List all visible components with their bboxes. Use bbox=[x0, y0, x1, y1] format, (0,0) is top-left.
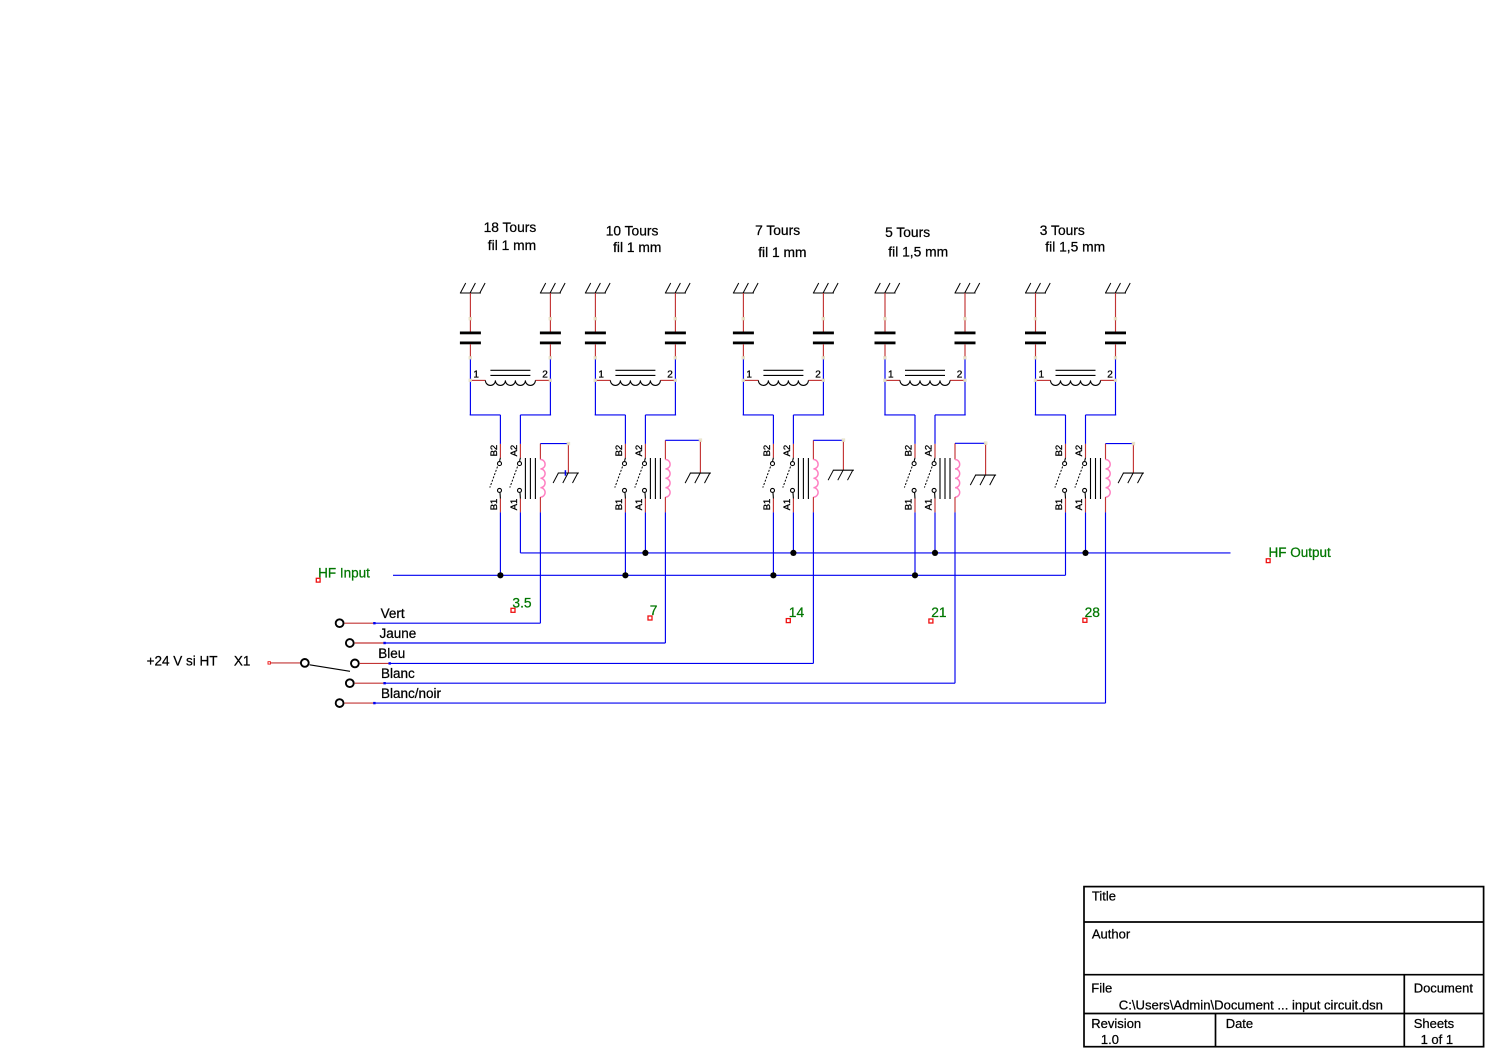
svg-text:B2: B2 bbox=[762, 445, 773, 457]
svg-text:B2: B2 bbox=[614, 445, 625, 457]
svg-text:18 Tours: 18 Tours bbox=[484, 220, 537, 235]
svg-text:2: 2 bbox=[957, 370, 963, 381]
svg-text:B2: B2 bbox=[1054, 445, 1065, 457]
svg-text:7 Tours: 7 Tours bbox=[755, 223, 800, 238]
svg-text:A1: A1 bbox=[782, 499, 793, 511]
svg-text:1: 1 bbox=[598, 370, 604, 381]
svg-text:A1: A1 bbox=[1074, 499, 1085, 511]
svg-text:1: 1 bbox=[746, 370, 752, 381]
svg-text:5 Tours: 5 Tours bbox=[885, 225, 930, 240]
svg-text:1: 1 bbox=[473, 370, 479, 381]
svg-text:X1: X1 bbox=[234, 654, 251, 669]
svg-text:fil 1 mm: fil 1 mm bbox=[758, 245, 806, 260]
svg-text:A1: A1 bbox=[634, 499, 645, 511]
svg-text:14: 14 bbox=[789, 605, 805, 620]
svg-text:Date: Date bbox=[1226, 1016, 1253, 1031]
svg-text:Bleu: Bleu bbox=[378, 646, 405, 661]
svg-text:B1: B1 bbox=[489, 499, 500, 511]
svg-text:HF Input: HF Input bbox=[318, 566, 370, 581]
svg-text:Title: Title bbox=[1092, 889, 1116, 904]
svg-text:Sheets: Sheets bbox=[1414, 1016, 1455, 1031]
svg-text:2: 2 bbox=[542, 370, 548, 381]
svg-text:A2: A2 bbox=[924, 445, 935, 457]
svg-text:B2: B2 bbox=[904, 445, 915, 457]
svg-text:Blanc/noir: Blanc/noir bbox=[381, 686, 442, 701]
svg-text:fil 1 mm: fil 1 mm bbox=[613, 240, 661, 255]
svg-text:fil 1,5 mm: fil 1,5 mm bbox=[1045, 240, 1105, 255]
svg-text:21: 21 bbox=[931, 605, 946, 620]
svg-text:Vert: Vert bbox=[381, 606, 405, 621]
svg-text:1: 1 bbox=[888, 370, 894, 381]
svg-text:A1: A1 bbox=[509, 499, 520, 511]
svg-text:+24 V si HT: +24 V si HT bbox=[147, 654, 218, 669]
svg-text:Revision: Revision bbox=[1091, 1016, 1141, 1031]
svg-text:HF Output: HF Output bbox=[1269, 545, 1332, 560]
svg-text:2: 2 bbox=[815, 370, 821, 381]
svg-text:fil 1 mm: fil 1 mm bbox=[488, 238, 536, 253]
svg-text:2: 2 bbox=[667, 370, 673, 381]
svg-text:fil 1,5 mm: fil 1,5 mm bbox=[888, 245, 948, 260]
svg-text:A2: A2 bbox=[634, 445, 645, 457]
svg-text:File: File bbox=[1091, 980, 1112, 995]
svg-text:1.0: 1.0 bbox=[1101, 1032, 1119, 1047]
svg-text:3 Tours: 3 Tours bbox=[1040, 223, 1085, 238]
svg-text:B2: B2 bbox=[489, 445, 500, 457]
svg-text:1 of 1: 1 of 1 bbox=[1421, 1032, 1454, 1047]
svg-text:B1: B1 bbox=[614, 499, 625, 511]
svg-text:A2: A2 bbox=[1074, 445, 1085, 457]
svg-text:B1: B1 bbox=[1054, 499, 1065, 511]
svg-text:B1: B1 bbox=[762, 499, 773, 511]
svg-text:Jaune: Jaune bbox=[380, 626, 417, 641]
svg-text:B1: B1 bbox=[904, 499, 915, 511]
svg-text:A2: A2 bbox=[509, 445, 520, 457]
svg-text:A1: A1 bbox=[924, 499, 935, 511]
svg-text:2: 2 bbox=[1107, 370, 1113, 381]
svg-text:A2: A2 bbox=[782, 445, 793, 457]
svg-text:Blanc: Blanc bbox=[381, 666, 415, 681]
svg-text:1: 1 bbox=[1039, 370, 1045, 381]
svg-text:C:\Users\Admin\Document ... in: C:\Users\Admin\Document ... input circui… bbox=[1119, 997, 1383, 1012]
svg-text:10 Tours: 10 Tours bbox=[606, 223, 659, 238]
svg-text:Author: Author bbox=[1092, 927, 1131, 942]
svg-text:Document: Document bbox=[1414, 980, 1474, 995]
